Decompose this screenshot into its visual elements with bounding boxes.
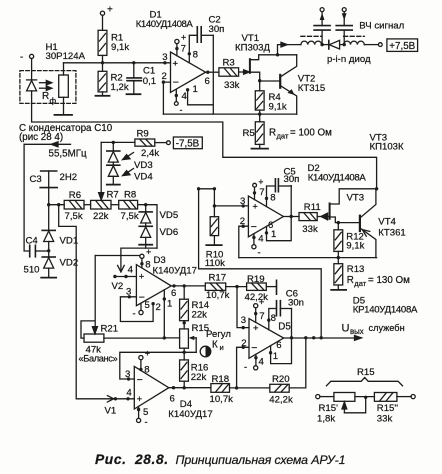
ground under R5	[252, 148, 269, 150]
ground under VD2	[41, 277, 56, 279]
node pin1 D5	[269, 351, 272, 354]
svg-text:R9: R9	[137, 129, 149, 140]
capacitor RF1	[314, 12, 330, 45]
arrow RF2	[342, 13, 347, 20]
stub bar right of R19	[276, 280, 278, 294]
ground under R10	[206, 244, 221, 246]
node R16 output D4	[183, 386, 186, 389]
svg-text:55,5МГц: 55,5МГц	[49, 149, 88, 160]
wire photodiode line B to VT3	[32, 91, 377, 189]
light arrows optocoupler	[40, 81, 52, 91]
node diode L2	[343, 43, 346, 46]
svg-text:Принципиальная схема АРУ-1: Принципиальная схема АРУ-1	[176, 453, 346, 467]
svg-text:VD4: VD4	[134, 172, 153, 183]
wire C5 to output D2	[290, 186, 292, 217]
svg-text:VD5: VD5	[160, 210, 179, 221]
svg-text:-: -	[133, 309, 136, 320]
svg-text:110k: 110k	[205, 258, 225, 269]
node pin4 D1	[175, 94, 178, 97]
wire pin8 D5 to C6	[269, 309, 277, 330]
svg-text:-: -	[258, 248, 261, 259]
resistor R13	[334, 258, 343, 290]
svg-text:4: 4	[259, 357, 265, 368]
resistor R8	[119, 200, 138, 209]
resistor R10	[210, 206, 218, 245]
ground under VD4	[107, 184, 120, 186]
terminal pin4 D2	[252, 245, 256, 249]
diode VD4	[107, 165, 120, 184]
wire main input line to D1 pin3	[64, 62, 171, 64]
node VT3 drain	[375, 187, 378, 190]
transistor VT4	[360, 189, 376, 258]
wire pin1 D5 loop	[271, 338, 292, 364]
arrow RF1	[320, 13, 325, 20]
svg-text:7,5k: 7,5k	[121, 211, 139, 222]
label Ki	[212, 340, 224, 353]
svg-text:6: 6	[268, 220, 273, 231]
svg-text:КТ361: КТ361	[378, 227, 405, 238]
svg-text:VD3: VD3	[134, 160, 153, 171]
node pin1 D1	[186, 88, 189, 91]
svg-text:КП303Д: КП303Д	[235, 43, 270, 54]
wire R21 wiper rail	[92, 256, 97, 335]
potentiometer R7	[91, 200, 111, 209]
svg-text:8: 8	[270, 193, 275, 204]
wire R9 node to R7 wiper arrow	[99, 142, 104, 200]
wire R18 R20	[230, 387, 270, 389]
svg-text:VD1: VD1	[60, 236, 79, 247]
svg-text:+: +	[253, 323, 259, 334]
svg-text:и: и	[220, 343, 224, 352]
svg-text:2: 2	[241, 338, 246, 349]
svg-text:−: −	[137, 374, 143, 386]
svg-text:VT4: VT4	[378, 217, 396, 228]
svg-text:7: 7	[259, 187, 264, 198]
node L1 diode	[320, 43, 323, 46]
node pin8 D3	[140, 262, 143, 265]
resistor R3	[219, 68, 239, 76]
node VD5 top	[144, 203, 147, 206]
svg-text:R21: R21	[101, 324, 119, 335]
svg-text:1: 1	[193, 84, 198, 95]
wiper R15	[189, 336, 197, 353]
wire feedback D5 to D2 pin3	[199, 189, 322, 338]
wire R15p to R15pp	[355, 396, 375, 398]
svg-text:−: −	[251, 221, 257, 233]
wire output D5	[284, 336, 362, 341]
node line A R4 R5	[258, 112, 261, 115]
terminal RF2	[342, 8, 346, 12]
node R10 top	[213, 204, 216, 207]
node VT1 source R4 VT2 base	[258, 79, 261, 82]
svg-text:служебн: служебн	[369, 323, 405, 333]
node C4 VD1 VD2	[47, 249, 50, 252]
label Rdat 100 Om	[269, 128, 332, 141]
potentiometer R21	[84, 334, 104, 342]
photoresistor Rf	[59, 63, 69, 114]
resistor R11	[299, 213, 317, 221]
svg-text:42,2k: 42,2k	[245, 292, 269, 303]
terminal inset right	[411, 395, 415, 399]
wire R21 right to pin1 line	[104, 337, 164, 339]
resistor R18	[211, 384, 230, 393]
inductor L1	[301, 41, 322, 44]
svg-text:+: +	[181, 33, 186, 43]
transistor VT3	[330, 189, 377, 223]
svg-text:+: +	[258, 177, 263, 187]
ground under C1	[127, 93, 141, 95]
svg-text:+7,5В: +7,5В	[389, 41, 415, 52]
svg-text:0,1: 0,1	[143, 76, 156, 87]
wire R9 to minus supply	[155, 142, 167, 144]
resistor R19	[247, 283, 267, 290]
svg-text:R17: R17	[209, 272, 227, 283]
svg-text:4: 4	[258, 234, 264, 245]
svg-text:30п: 30п	[284, 174, 300, 185]
node pin3	[163, 61, 166, 64]
op-amp D2	[248, 196, 283, 237]
light arrow VD4	[123, 169, 134, 176]
wire R19 to stub bar	[266, 286, 276, 288]
svg-text:2Н2: 2Н2	[60, 172, 78, 183]
capacitor C4	[30, 245, 49, 256]
resistor R16	[180, 352, 189, 388]
svg-text:4: 4	[182, 91, 188, 102]
svg-text:R8: R8	[124, 190, 136, 201]
wire pin4 D2	[253, 234, 255, 245]
svg-text:7: 7	[259, 311, 264, 322]
pin diode VD	[322, 40, 344, 49]
node pin3 D5	[242, 326, 245, 329]
resistor R5	[255, 114, 264, 149]
node feedback corner a	[197, 187, 200, 190]
wire VD6 to V2 line	[145, 245, 147, 248]
wire pin8 D4	[140, 360, 142, 371]
svg-text:V1: V1	[105, 406, 117, 417]
resistor R4	[255, 81, 264, 114]
node R12 R13	[337, 256, 340, 259]
diode VD5	[139, 205, 152, 227]
wire 55MHz input arrow	[24, 142, 70, 147]
svg-text:= 100 Ом: = 100 Ом	[290, 128, 332, 139]
light arrow VD3	[123, 153, 134, 160]
resistor R14	[180, 286, 189, 329]
node output D4	[172, 386, 175, 389]
wire pin8 D3	[141, 258, 143, 267]
wire R7 R8	[111, 204, 119, 206]
svg-text:6: 6	[205, 76, 210, 87]
photodiode of optocoupler H1	[27, 80, 37, 91]
svg-text:C4: C4	[26, 236, 39, 247]
wire V2 pin4 D3	[115, 276, 137, 278]
node R14 R15	[183, 321, 186, 324]
node V1 a	[114, 397, 117, 400]
ground under Rf	[55, 114, 73, 116]
svg-text:-: -	[20, 52, 23, 63]
svg-text:7,5k: 7,5k	[65, 211, 83, 222]
wire balance rail to pin8 terminal	[95, 255, 140, 257]
resistor R6	[64, 200, 84, 209]
svg-text:9,1k: 9,1k	[111, 42, 129, 53]
svg-text:R15'': R15''	[377, 403, 398, 414]
node pin4 D5	[254, 356, 257, 359]
wire feedback line A	[163, 113, 296, 115]
wire pin8 D1 to C2	[189, 35, 197, 63]
svg-text:+: +	[145, 349, 150, 359]
arrow V1	[107, 396, 113, 402]
wire pin1 D2 loop	[267, 217, 292, 241]
wire R17R19 node to D5 pin3	[237, 287, 249, 328]
svg-text:(рис 28 4): (рис 28 4)	[19, 132, 63, 143]
svg-text:К140УД17: К140УД17	[153, 266, 197, 277]
node pin8 D5	[267, 318, 270, 321]
svg-text:КР140УД1408А: КР140УД1408А	[353, 305, 418, 316]
svg-text:3: 3	[126, 287, 131, 298]
svg-text:33k: 33k	[302, 224, 318, 235]
diode VD3	[107, 142, 120, 165]
svg-text:+: +	[259, 297, 264, 307]
box minus 7,5V	[173, 137, 202, 149]
inductor L2	[344, 41, 365, 44]
svg-text:10,7k: 10,7k	[210, 394, 234, 405]
node pin7 D2	[253, 191, 256, 194]
node C1	[132, 61, 135, 64]
svg-text:R18: R18	[212, 374, 230, 385]
node pin1 D3	[163, 297, 166, 300]
svg-text:дат: дат	[354, 279, 366, 288]
svg-text:U: U	[342, 323, 350, 335]
node left rail branch	[57, 203, 60, 206]
node output D5 feedback	[320, 336, 323, 339]
svg-text:+: +	[173, 59, 179, 70]
caption	[95, 452, 345, 467]
brace R15 inset	[326, 378, 402, 386]
svg-text:3: 3	[125, 369, 130, 380]
bar under VD6	[139, 244, 152, 246]
node output D3	[172, 284, 175, 287]
capacitor C5	[275, 179, 291, 192]
svg-text:вых: вых	[350, 327, 364, 336]
svg-text:2: 2	[162, 71, 167, 82]
wire inset left	[320, 396, 334, 398]
resistor R17	[205, 283, 225, 290]
terminal minus input H1	[30, 54, 34, 58]
svg-text:К140УД17: К140УД17	[168, 409, 212, 420]
ground under R2	[96, 95, 110, 97]
potentiometer R15p	[334, 393, 355, 402]
label Uvyh	[342, 323, 405, 337]
op-amp D5	[249, 319, 284, 359]
terminal pin7 D2	[253, 183, 257, 187]
wire pin7 D5	[255, 308, 257, 323]
svg-text:+: +	[146, 247, 151, 257]
wire R20 to output riser	[289, 338, 306, 388]
wire pin3 D3 loop to pin5	[120, 297, 153, 322]
wire VD chain row to V2 arrow	[118, 248, 157, 272]
capacitor RF2	[336, 12, 352, 45]
svg-text:22k: 22k	[192, 310, 208, 321]
wire pin marker D3 bottom	[140, 303, 142, 310]
node VT1 drain riser	[276, 53, 279, 56]
wire R15 bottom stub	[183, 348, 185, 352]
node pin3 D2	[242, 204, 245, 207]
svg-text:30n: 30n	[288, 298, 304, 309]
node feedback corner b	[213, 187, 216, 190]
node C3 VD1	[47, 203, 50, 206]
svg-text:-: -	[145, 417, 148, 428]
node inset junction	[364, 396, 367, 399]
svg-text:ф: ф	[50, 97, 57, 106]
svg-text:10,7k: 10,7k	[206, 290, 230, 301]
svg-text:R: R	[347, 275, 354, 286]
svg-text:1: 1	[273, 351, 278, 362]
node output D5 mid	[312, 336, 315, 339]
diode VD6	[139, 226, 152, 244]
svg-text:8: 8	[144, 365, 149, 376]
wire R11 to VT3 gate arrow	[317, 213, 328, 220]
node output D3 R14	[183, 284, 186, 287]
svg-text:+: +	[252, 201, 258, 212]
resistor R1	[98, 30, 107, 55]
diode VD2	[42, 257, 55, 278]
svg-text:4: 4	[126, 387, 132, 398]
wire R3 to VT1 gate with arrow	[239, 70, 250, 74]
wire R17 R19	[226, 286, 247, 288]
node pin7 D1	[175, 47, 178, 50]
node output D5 C6	[290, 336, 293, 339]
wire pin2 D2 loop	[239, 226, 249, 257]
svg-text:3: 3	[162, 52, 167, 63]
svg-text:КП103К: КП103К	[370, 142, 404, 153]
svg-text:R6: R6	[69, 190, 81, 201]
svg-text:R: R	[42, 91, 49, 102]
svg-text:8: 8	[145, 260, 150, 271]
wire L2 to supply	[364, 44, 378, 46]
svg-text:-: -	[244, 362, 247, 373]
svg-text:1,8k: 1,8k	[317, 414, 335, 425]
wire pin8 D2 to C5	[267, 186, 276, 207]
node pin3 D3	[128, 295, 131, 298]
wire output D4	[169, 387, 211, 389]
svg-text:1,2k: 1,2k	[111, 82, 129, 93]
resistor R9	[135, 139, 155, 146]
node pin2 D2	[242, 225, 245, 228]
svg-text:5: 5	[145, 300, 150, 311]
wire pin5 D4	[138, 406, 140, 418]
wire left rail to V1	[59, 205, 135, 399]
wire wiper net to D4 pin3	[120, 352, 196, 379]
ground under R13	[331, 289, 346, 291]
terminal inset left	[316, 395, 320, 399]
resistor R2	[98, 71, 107, 92]
resistor R15pp	[374, 393, 397, 402]
node R17 R19	[235, 285, 238, 288]
svg-text:6: 6	[276, 340, 281, 351]
wire pin4 D1	[175, 90, 177, 102]
svg-text:9,1k: 9,1k	[346, 240, 364, 251]
op-amp D4	[134, 366, 169, 409]
svg-text:-: -	[180, 105, 183, 115]
wiper R15p	[342, 397, 366, 413]
wire pin7 D1	[176, 44, 178, 56]
svg-text:6: 6	[170, 394, 175, 405]
svg-text:9,1k: 9,1k	[269, 102, 287, 113]
wire C6 to output	[291, 309, 293, 338]
wire input terminal to photodiode	[31, 59, 33, 80]
capacitor C6	[277, 301, 292, 316]
svg-text:8: 8	[271, 313, 276, 324]
wire pin2 D1	[163, 82, 170, 114]
wire R9 line	[101, 141, 135, 143]
wire R8 to VD5 corner	[138, 205, 157, 248]
box plus 7,5V	[387, 39, 418, 52]
svg-text:p-i-n диод: p-i-n диод	[327, 54, 371, 65]
node R15 R16	[183, 351, 186, 354]
svg-text:VT3: VT3	[347, 193, 365, 204]
node V2 a	[113, 275, 116, 278]
node pin5 D4	[137, 408, 140, 411]
optocoupler dashed box H1	[20, 71, 76, 104]
svg-text:R15: R15	[357, 367, 375, 378]
terminal supply	[378, 43, 382, 47]
node VD3 top	[112, 141, 115, 144]
svg-text:+: +	[137, 394, 143, 405]
op-amp D1	[171, 52, 206, 92]
wire junction to D5 pin2	[237, 347, 249, 388]
svg-text:VD2: VD2	[60, 258, 79, 269]
node V1 b	[126, 397, 129, 400]
svg-text:R20: R20	[272, 374, 290, 385]
svg-text:-7,5В: -7,5В	[176, 138, 200, 149]
node pin1 D2	[265, 231, 268, 234]
svg-text:VD6: VD6	[160, 227, 179, 238]
capacitor C3	[40, 171, 57, 205]
wire pin1 D3 down to R15	[164, 290, 179, 338]
svg-text:R7: R7	[107, 190, 119, 201]
svg-text:R: R	[269, 128, 276, 139]
svg-text:R19: R19	[247, 274, 265, 285]
wire R6 R7 R8 row	[49, 204, 64, 206]
terminal pin7 D1	[175, 39, 179, 43]
svg-text:3: 3	[241, 315, 246, 326]
svg-text:= 130 Ом: = 130 Ом	[368, 275, 410, 286]
transistor VT2	[260, 55, 297, 114]
svg-text:C3: C3	[30, 174, 42, 185]
svg-text:ВЧ сигнал: ВЧ сигнал	[359, 21, 404, 32]
svg-text:7: 7	[181, 44, 186, 55]
svg-text:«Баланс»: «Баланс»	[79, 353, 118, 363]
svg-text:6: 6	[171, 288, 176, 299]
terminal plus R1	[100, 11, 104, 15]
svg-text:V2: V2	[112, 281, 124, 292]
svg-text:−: −	[173, 77, 179, 89]
capacitor C2	[197, 27, 213, 42]
wire output D3	[171, 285, 205, 287]
svg-text:C1: C1	[143, 65, 155, 76]
node output D2	[290, 215, 293, 218]
capacitor C1	[127, 63, 141, 94]
svg-text:22k: 22k	[191, 372, 207, 383]
terminal minus 7,5V	[167, 141, 171, 145]
terminal bottom D3	[139, 310, 143, 314]
wire R21 left to pin loop	[81, 321, 95, 338]
wire plus terminal to R1	[102, 15, 104, 30]
resistor R20	[270, 384, 289, 392]
svg-text:R11: R11	[304, 202, 321, 213]
resistor R12	[334, 223, 343, 258]
svg-text:Рис. 28.8.: Рис. 28.8.	[95, 452, 169, 467]
svg-text:510: 510	[24, 265, 40, 276]
